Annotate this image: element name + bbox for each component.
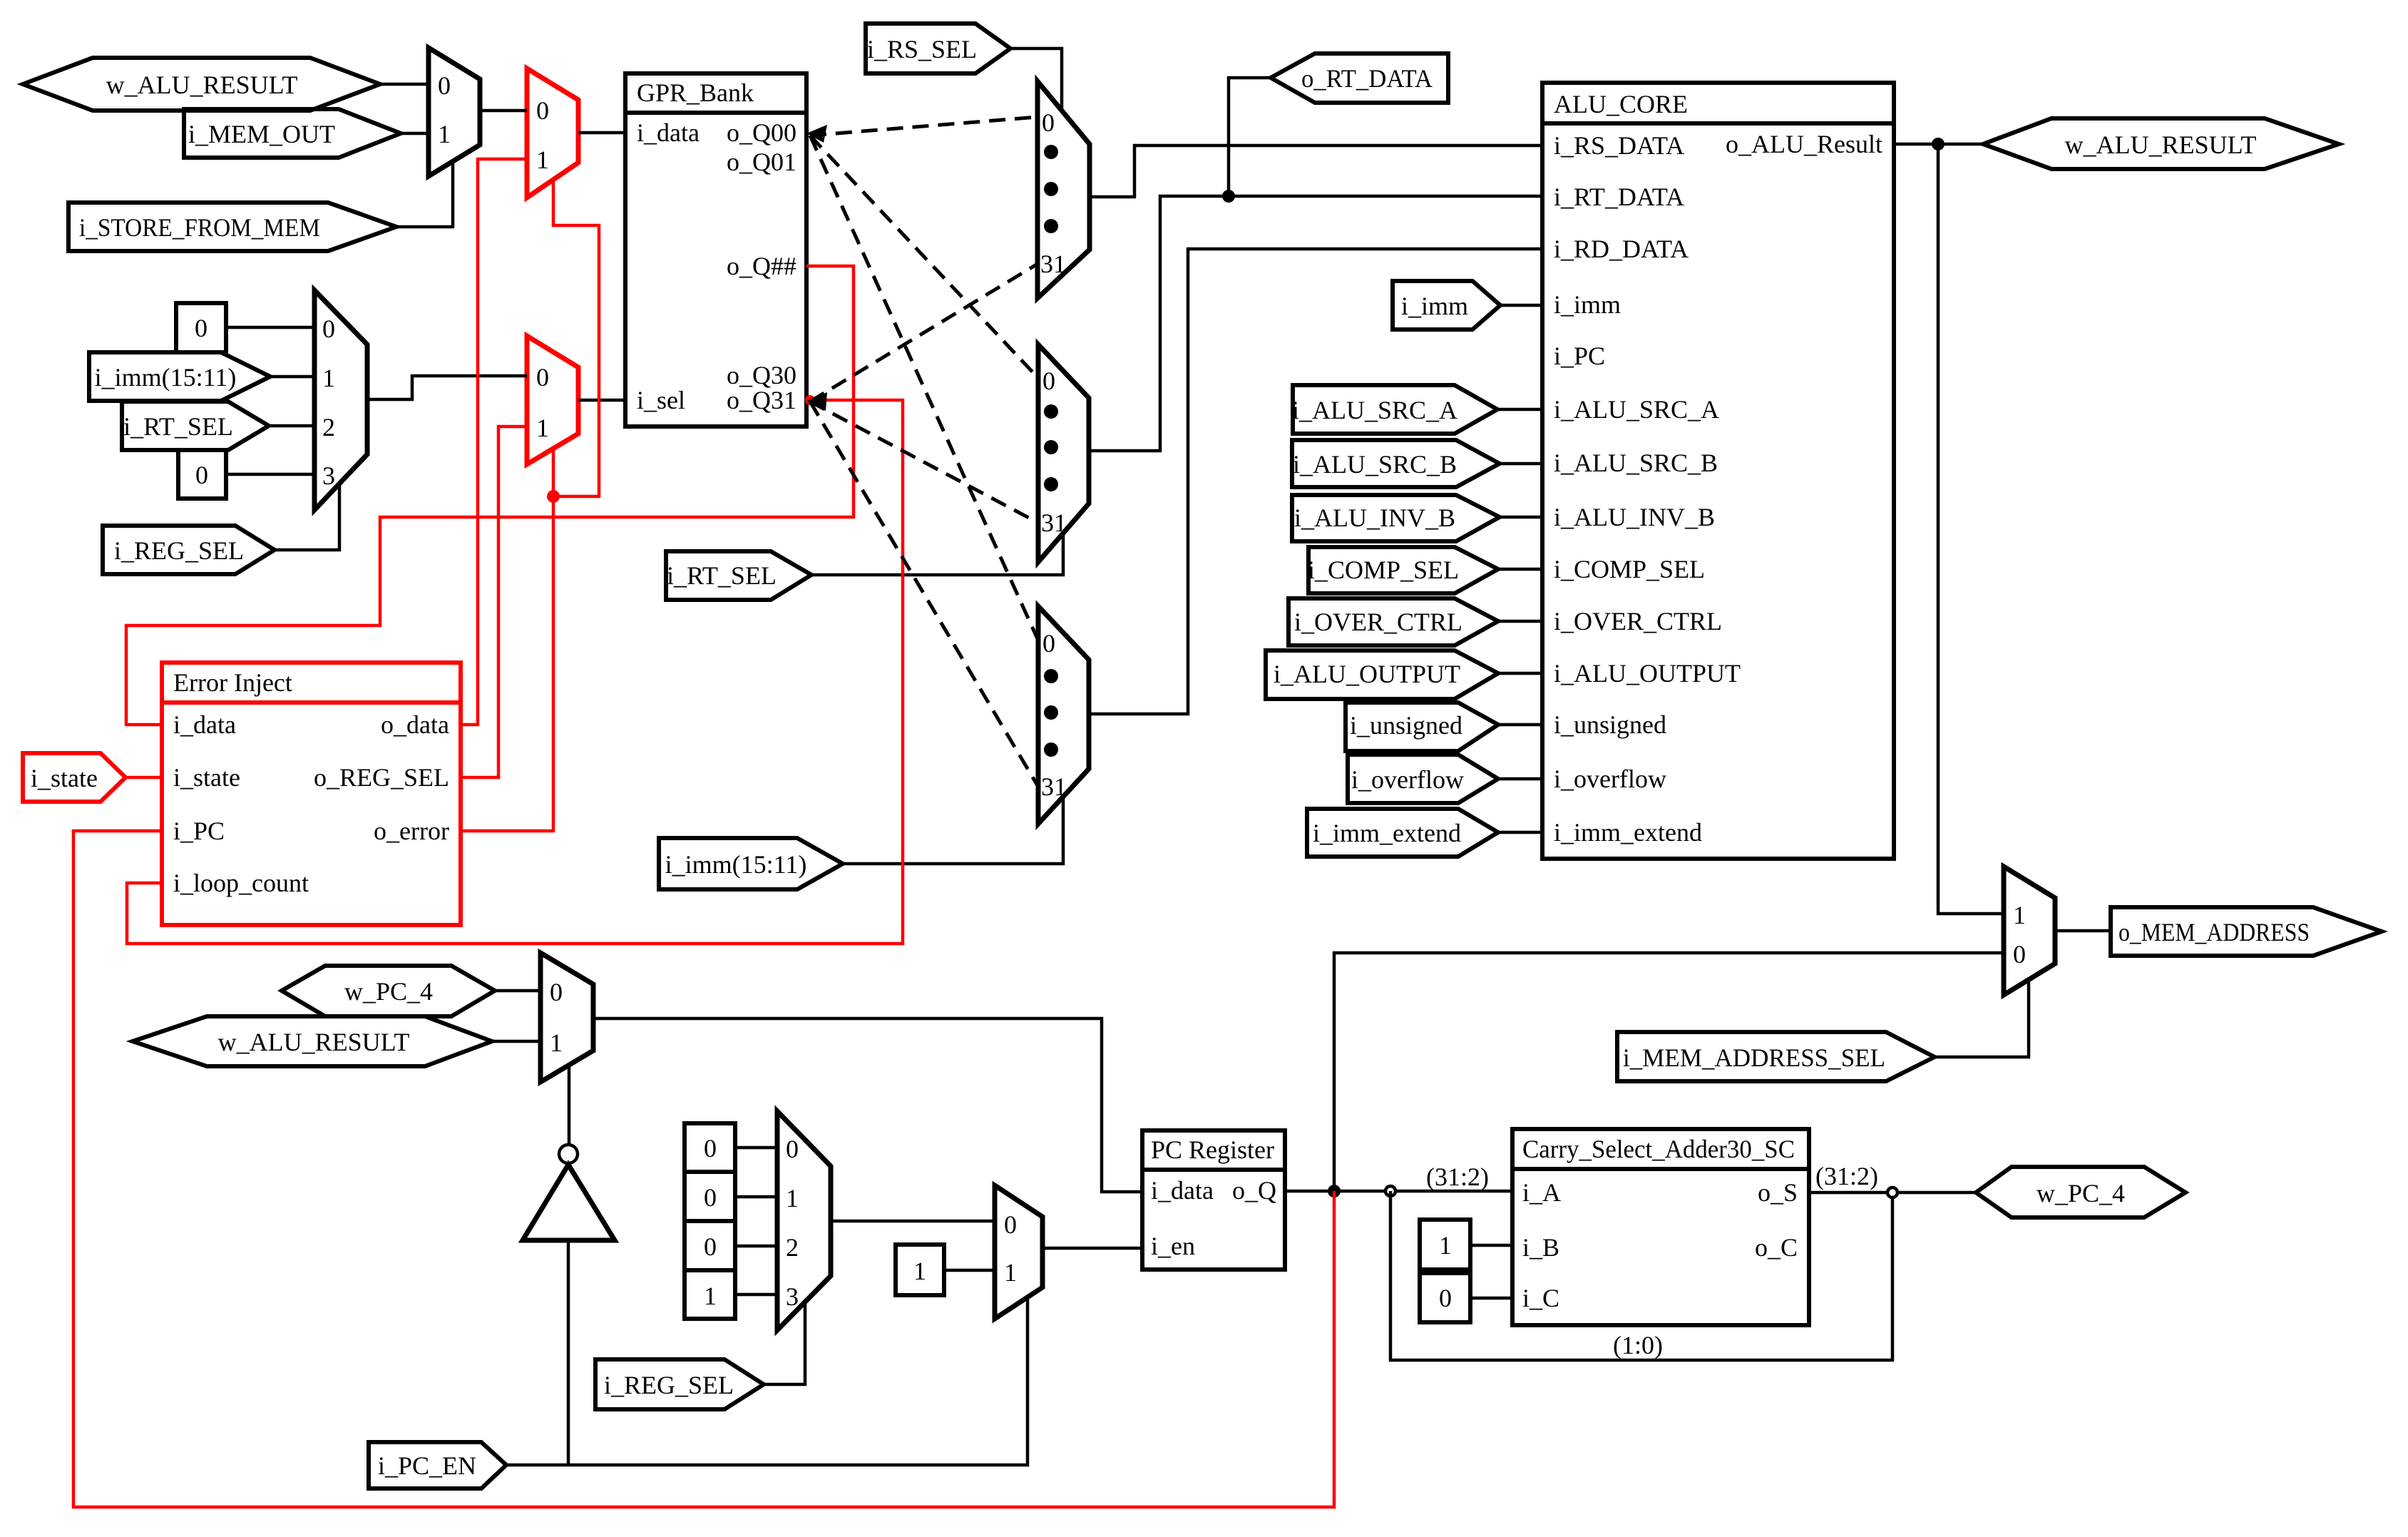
red wire o_Q## to i_data <box>126 266 854 725</box>
svg-text:3: 3 <box>786 1282 799 1311</box>
tag i_COMP_SEL <box>1308 547 1498 593</box>
mux RD 32-input <box>1038 606 1089 824</box>
node o_RT_DATA junction <box>1222 190 1235 203</box>
svg-text:1: 1 <box>536 414 549 442</box>
block GPR_Bank <box>625 73 806 427</box>
svg-text:0: 0 <box>1042 629 1055 658</box>
tag i_ALU_SRC_B <box>1292 440 1500 487</box>
svg-text:i_imm(15:11): i_imm(15:11) <box>665 850 807 879</box>
svg-text:1: 1 <box>322 364 335 392</box>
block ALU_CORE <box>1542 83 1894 859</box>
dashed o_Q31 to RD.31 <box>810 402 1038 787</box>
svg-text:i_ALU_SRC_B: i_ALU_SRC_B <box>1293 450 1457 479</box>
wire o_ALU_Result to w_ALU_RESULT <box>1894 143 1983 146</box>
arrowhead at o_Q31 <box>806 392 827 411</box>
svg-text:o_RT_DATA: o_RT_DATA <box>1301 64 1433 93</box>
mux PC-enable (0/1) <box>995 1185 1042 1319</box>
svg-text:0: 0 <box>786 1135 799 1163</box>
svg-text:i_ALU_INV_B: i_ALU_INV_B <box>1554 503 1715 531</box>
svg-text:o_Q: o_Q <box>1232 1176 1276 1205</box>
svg-text:o_Q31: o_Q31 <box>727 386 796 414</box>
svg-text:i_REG_SEL: i_REG_SEL <box>604 1371 734 1399</box>
red wire o_Q to i_PC loop <box>73 831 1334 1507</box>
wire i_imm(15:11) to M4.1 <box>270 375 314 379</box>
svg-text:w_ALU_RESULT: w_ALU_RESULT <box>106 71 298 99</box>
svg-text:i_RT_DATA: i_RT_DATA <box>1554 183 1684 211</box>
svg-text:i_unsigned: i_unsigned <box>1554 710 1666 739</box>
node bus ripper o_S <box>1887 1188 1897 1198</box>
block Carry_Select_Adder30_SC <box>1512 1129 1809 1325</box>
svg-text:i_overflow: i_overflow <box>1351 765 1464 794</box>
wire adder const 0 to i_C <box>1470 1297 1512 1300</box>
svg-text:i_overflow: i_overflow <box>1554 765 1666 793</box>
svg-text:i_ALU_OUTPUT: i_ALU_OUTPUT <box>1274 660 1460 688</box>
svg-text:o_Q01: o_Q01 <box>727 148 796 176</box>
wire MEM mux out to o_MEM_ADDRESS <box>2055 929 2111 933</box>
svg-text:Carry_Select_Adder30_SC: Carry_Select_Adder30_SC <box>1522 1135 1795 1163</box>
svg-text:1: 1 <box>536 145 549 174</box>
svg-text:i_en: i_en <box>1151 1232 1195 1260</box>
svg-text:0: 0 <box>2013 940 2026 969</box>
wire w_ALU_RESULT to PC mux.1 <box>492 1040 540 1043</box>
block PC Register <box>1142 1130 1285 1270</box>
node bus ripper (1:0) <box>1385 1186 1395 1196</box>
tag i_imm <box>1393 281 1500 330</box>
svg-text:0: 0 <box>536 363 549 392</box>
red wire select to M2 <box>553 179 599 496</box>
svg-text:o_ALU_Result: o_ALU_Result <box>1726 130 1882 158</box>
svg-text:i_PC_EN: i_PC_EN <box>378 1451 476 1480</box>
wire i_OVER_CTRL tag to ALU <box>1498 620 1542 623</box>
red wire o_REG_SEL to M3.1 <box>461 427 527 777</box>
wire i_MEM_ADDRESS_SEL to MEM mux select <box>1935 979 2029 1057</box>
svg-text:i_STORE_FROM_MEM: i_STORE_FROM_MEM <box>79 213 320 242</box>
wire i_ALU_SRC_B tag to ALU <box>1500 462 1542 466</box>
svg-text:w_PC_4: w_PC_4 <box>2036 1179 2125 1207</box>
svg-text:i_COMP_SEL: i_COMP_SEL <box>1308 556 1459 584</box>
wire i_REG_SEL to M4 select <box>275 482 339 550</box>
red wire i_state tag to block <box>125 776 162 780</box>
svg-text:o_Q00: o_Q00 <box>727 118 796 147</box>
tag i_MEM_OUT <box>184 109 401 158</box>
wire M4 out to M3.0 <box>367 376 527 399</box>
svg-text:i_data: i_data <box>1151 1176 1214 1205</box>
svg-text:GPR_Bank: GPR_Bank <box>637 78 754 107</box>
wire i_STORE_FROM_MEM to M1 select <box>396 160 453 227</box>
svg-text:i_sel: i_sel <box>637 386 685 414</box>
svg-text:i_PC: i_PC <box>1554 342 1605 370</box>
dashed o_Q31 to RS.31 <box>810 264 1038 402</box>
svg-text:1: 1 <box>913 1257 926 1285</box>
svg-text:i_ALU_OUTPUT: i_ALU_OUTPUT <box>1554 659 1741 688</box>
tag i_imm(15:11) lower <box>659 838 843 889</box>
tag i_MEM_ADDRESS_SEL <box>1617 1032 1935 1081</box>
svg-text:i_imm(15:11): i_imm(15:11) <box>95 363 237 392</box>
wire i_imm(15:11) lower to RD mux select <box>843 795 1063 864</box>
svg-text:o_C: o_C <box>1755 1233 1798 1262</box>
wire M1 out to M2.0 <box>480 109 527 113</box>
svg-text:i_OVER_CTRL: i_OVER_CTRL <box>1294 608 1462 636</box>
svg-text:ALU_CORE: ALU_CORE <box>1554 90 1688 118</box>
wire RD mux out to ALU i_RD_DATA <box>1089 249 1542 714</box>
tag i_imm_extend <box>1307 809 1498 857</box>
svg-text:1: 1 <box>1004 1258 1017 1287</box>
wire i_ALU_SRC_A tag to ALU <box>1497 408 1542 412</box>
wire (1:0) feedback loop <box>1390 1191 1892 1360</box>
svg-text:o_error: o_error <box>374 817 449 845</box>
svg-text:i_RT_SEL: i_RT_SEL <box>123 412 233 441</box>
svg-text:0: 0 <box>704 1232 717 1261</box>
tag i_RT_SEL lower <box>666 551 811 600</box>
mux M3 red sel mux (0/1) <box>527 336 578 464</box>
svg-text:o_data: o_data <box>381 710 449 739</box>
svg-text:i_imm: i_imm <box>1554 290 1621 319</box>
svg-text:i_imm: i_imm <box>1401 292 1468 320</box>
wire i_MEM_OUT to M1.1 <box>401 132 429 136</box>
tag i_OVER_CTRL <box>1288 598 1498 645</box>
wire o_RT_DATA branch <box>1229 78 1271 196</box>
tag w_ALU_RESULT (bottom left) <box>133 1016 492 1066</box>
svg-text:i_ALU_SRC_A: i_ALU_SRC_A <box>1554 395 1719 424</box>
tag i_imm(15:11) upper <box>89 352 270 401</box>
node o_Q31 red <box>805 395 815 405</box>
wire RS mux out to ALU i_RS_DATA <box>1090 145 1542 197</box>
wire M3 out to GPR i_sel <box>578 399 625 402</box>
svg-text:0: 0 <box>1439 1284 1452 1312</box>
wire const column to PC const mux <box>735 1146 777 1150</box>
wire i_imm tag to ALU <box>1500 304 1542 307</box>
svg-text:i_ALU_SRC_B: i_ALU_SRC_B <box>1554 449 1718 477</box>
svg-text:i_RT_SEL: i_RT_SEL <box>667 561 777 590</box>
mux PC-source (0/1) <box>540 953 593 1082</box>
const 1 box (adder i_B) <box>1420 1220 1470 1270</box>
wire PC-enable mux out to i_en <box>1042 1247 1142 1250</box>
tag w_ALU_RESULT (top left) <box>23 58 380 111</box>
wire i_imm_extend tag to ALU <box>1498 831 1542 834</box>
tag i_state (red) <box>23 753 125 802</box>
wire w_PC_4 to PC mux.0 <box>495 989 540 993</box>
svg-text:1: 1 <box>1439 1231 1452 1260</box>
svg-text:0: 0 <box>704 1134 717 1163</box>
tag i_RT_SEL upper <box>122 402 269 450</box>
const column 0,0,0,1 (PC const mux) <box>685 1123 735 1319</box>
svg-text:0: 0 <box>1042 367 1055 395</box>
tag i_REG_SEL upper <box>103 526 275 574</box>
svg-text:0: 0 <box>550 978 563 1006</box>
svg-text:i_imm_extend: i_imm_extend <box>1313 819 1461 847</box>
const 0 box (upper mux input 0) <box>176 303 226 352</box>
wire i_RT_SEL to M4.2 <box>269 424 314 428</box>
dashed o_Q31 to RT.31 <box>810 402 1038 523</box>
const 0 box (adder i_C) <box>1420 1273 1470 1322</box>
arrowhead at o_Q00 <box>806 125 827 143</box>
svg-text:i_MEM_OUT: i_MEM_OUT <box>188 120 335 148</box>
svg-text:1: 1 <box>2013 901 2026 929</box>
svg-text:i_ALU_INV_B: i_ALU_INV_B <box>1294 504 1455 532</box>
svg-text:i_MEM_ADDRESS_SEL: i_MEM_ADDRESS_SEL <box>1623 1043 1885 1072</box>
red wire o_error select net <box>461 448 553 831</box>
svg-text:PC Register: PC Register <box>1151 1135 1274 1164</box>
red wire o_Q31 to i_loop_count <box>127 400 903 944</box>
tag i_PC_EN <box>369 1442 506 1489</box>
tag i_REG_SEL lower <box>595 1359 764 1409</box>
dashed o_Q00 to RD.0 <box>810 136 1038 640</box>
wire RT mux out to ALU i_RT_DATA <box>1089 196 1542 451</box>
dashed o_Q00 to RT.0 <box>810 136 1038 378</box>
wire inverter input from i_PC_EN <box>567 1240 570 1465</box>
svg-text:o_S: o_S <box>1758 1178 1798 1207</box>
block Error Inject (red) <box>162 663 461 925</box>
wire PC mux select to inverter <box>568 1066 571 1145</box>
inverter (NOT gate) on PC-source select <box>523 1145 615 1240</box>
svg-text:2: 2 <box>786 1233 799 1262</box>
tag i_ALU_OUTPUT <box>1266 650 1498 699</box>
tag i_RS_SEL <box>866 24 1010 73</box>
svg-text:o_Q30: o_Q30 <box>727 361 796 389</box>
wire PC o_Q to adder i_A <box>1285 1190 1512 1193</box>
svg-text:i_OVER_CTRL: i_OVER_CTRL <box>1554 607 1722 635</box>
wire PC o_Q to MEM mux.0 <box>1334 953 2004 1191</box>
svg-text:i_COMP_SEL: i_COMP_SEL <box>1554 555 1705 583</box>
svg-text:2: 2 <box>322 413 335 441</box>
svg-text:o_MEM_ADDRESS: o_MEM_ADDRESS <box>2118 918 2310 946</box>
svg-text:i_ALU_SRC_A: i_ALU_SRC_A <box>1292 396 1457 424</box>
svg-text:31: 31 <box>1040 250 1066 278</box>
svg-text:0: 0 <box>704 1183 717 1212</box>
tag w_PC_4 (bottom left) <box>282 966 495 1016</box>
svg-text:1: 1 <box>550 1028 563 1057</box>
tag o_MEM_ADDRESS <box>2111 907 2382 956</box>
svg-text:w_ALU_RESULT: w_ALU_RESULT <box>218 1028 410 1056</box>
mux M4 reg-sel 4-input (0..3) <box>314 290 367 510</box>
red wire o_data to M2.1 <box>461 159 527 725</box>
tag i_STORE_FROM_MEM <box>68 203 396 251</box>
wire ALU result to MEM mux.1 <box>1938 144 2004 914</box>
svg-text:0: 0 <box>536 96 549 125</box>
wire i_PC_EN to PC-enable mux select <box>506 1298 1028 1465</box>
mux MEM-address (1/0) <box>2004 867 2055 995</box>
const 0 box (upper mux input 3) <box>178 450 226 499</box>
tag i_ALU_SRC_A <box>1292 385 1497 434</box>
mux RS 32-input <box>1038 81 1090 298</box>
svg-text:1: 1 <box>704 1282 717 1310</box>
wire i_ALU_INV_B tag to ALU <box>1500 516 1542 519</box>
tag w_ALU_RESULT (top right) <box>1983 118 2339 169</box>
svg-text:Error Inject: Error Inject <box>173 668 292 697</box>
tag i_unsigned <box>1346 703 1498 751</box>
svg-text:i_RS_DATA: i_RS_DATA <box>1554 131 1684 160</box>
wire i_RT_SEL lower to RT mux select <box>811 531 1063 575</box>
wire M2 out to GPR i_data <box>578 131 625 135</box>
svg-text:i_state: i_state <box>31 764 98 792</box>
svg-text:0: 0 <box>438 71 451 100</box>
wire i_COMP_SEL tag to ALU <box>1498 568 1542 571</box>
svg-text:0: 0 <box>1042 108 1055 137</box>
wire const 1 to PC-enable mux.1 <box>944 1269 995 1272</box>
wire const0 to M4.3 <box>226 473 314 476</box>
svg-text:i_PC: i_PC <box>173 817 225 845</box>
wire adder const 1 to i_B <box>1470 1244 1512 1247</box>
svg-text:3: 3 <box>322 461 335 490</box>
wire PC const mux out to PC-enable mux.0 <box>831 1220 995 1223</box>
svg-text:w_PC_4: w_PC_4 <box>344 977 433 1006</box>
wire PC mux out to PC Register i_data <box>593 1018 1142 1192</box>
svg-text:(31:2): (31:2) <box>1815 1162 1878 1190</box>
tag i_overflow <box>1348 755 1498 803</box>
svg-text:i_B: i_B <box>1522 1233 1559 1262</box>
svg-text:i_unsigned: i_unsigned <box>1350 711 1462 740</box>
svg-text:o_REG_SEL: o_REG_SEL <box>314 763 449 792</box>
svg-text:(1:0): (1:0) <box>1613 1331 1663 1359</box>
svg-text:(31:2): (31:2) <box>1426 1163 1489 1191</box>
svg-text:i_data: i_data <box>637 118 700 147</box>
mux M2 red data mux (0/1) <box>527 68 578 198</box>
wire o_S to w_PC_4 <box>1809 1191 1976 1195</box>
tag i_ALU_INV_B <box>1292 495 1500 541</box>
node red select junction <box>547 490 560 503</box>
svg-text:i_RD_DATA: i_RD_DATA <box>1554 235 1689 263</box>
svg-text:i_loop_count: i_loop_count <box>173 869 309 897</box>
svg-text:0: 0 <box>195 461 208 489</box>
node o_Q junction <box>1328 1185 1341 1198</box>
wire i_REG_SEL lower to PC const mux select <box>764 1302 805 1384</box>
svg-text:i_REG_SEL: i_REG_SEL <box>114 536 244 565</box>
svg-text:i_C: i_C <box>1522 1284 1559 1312</box>
mux PC-const 4-input (0..3) <box>777 1111 831 1330</box>
wire w_ALU_RESULT to M1.0 <box>380 83 429 86</box>
svg-text:0: 0 <box>1004 1210 1017 1239</box>
wire i_unsigned tag to ALU <box>1498 723 1542 727</box>
svg-text:i_A: i_A <box>1522 1178 1561 1207</box>
svg-text:w_ALU_RESULT: w_ALU_RESULT <box>2065 131 2257 159</box>
wire i_ALU_OUTPUT tag to ALU <box>1498 672 1542 675</box>
tag o_RT_DATA (points left) <box>1271 53 1448 103</box>
svg-text:i_data: i_data <box>173 710 236 739</box>
mux M1 write-data select (0/1) <box>429 48 480 176</box>
svg-text:0: 0 <box>322 315 335 343</box>
svg-text:i_imm_extend: i_imm_extend <box>1554 818 1702 847</box>
tag w_PC_4 (bottom right) <box>1976 1167 2186 1217</box>
svg-text:1: 1 <box>786 1184 799 1212</box>
svg-text:i_RS_SEL: i_RS_SEL <box>867 35 977 63</box>
svg-text:0: 0 <box>195 314 208 342</box>
wire i_RS_SEL to RS mux select <box>1010 48 1062 111</box>
dashed o_Q00 to RS.0 <box>810 117 1038 136</box>
svg-text:1: 1 <box>438 120 451 148</box>
node ALU result junction <box>1932 138 1945 150</box>
wire const0 to M4.0 <box>226 326 314 330</box>
wire i_overflow tag to ALU <box>1498 777 1542 781</box>
mux RT 32-input <box>1038 344 1089 562</box>
svg-text:o_Q##: o_Q## <box>727 252 796 280</box>
svg-text:i_state: i_state <box>173 763 240 792</box>
const 1 box (PC-enable mux input 1) <box>896 1245 944 1295</box>
